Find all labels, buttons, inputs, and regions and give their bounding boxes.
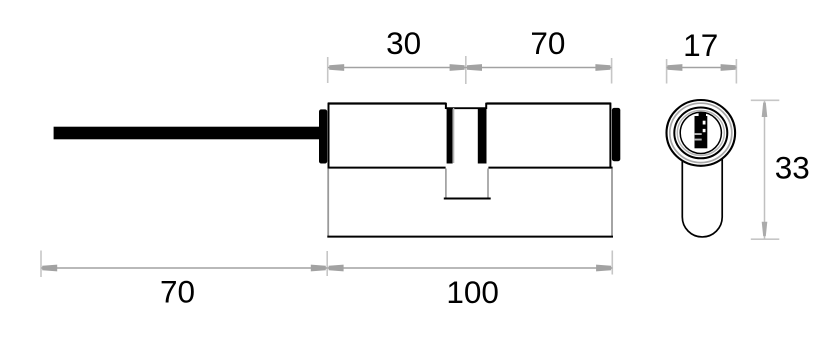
dim tick 17-right xyxy=(735,59,737,84)
dim tick 17-left xyxy=(666,59,668,84)
left end cap xyxy=(319,109,327,163)
svg-text:30: 30 xyxy=(386,25,421,61)
dim tick 100-right xyxy=(611,251,613,275)
cam left bar xyxy=(447,108,453,164)
end-view profile body xyxy=(682,158,722,237)
dim tick 30/70 xyxy=(465,56,467,84)
svg-text:17: 17 xyxy=(683,27,718,63)
dim line 33 xyxy=(762,101,768,240)
dim tick 33-bottom xyxy=(751,238,780,240)
cam notch xyxy=(444,169,491,199)
dim tick 70-right xyxy=(611,58,613,84)
end-view plug ring xyxy=(680,112,721,153)
cam right bar xyxy=(478,108,487,164)
dim tick 70b-left xyxy=(40,251,42,278)
svg-text:33: 33 xyxy=(775,150,810,186)
end-view gray ring 3 xyxy=(677,110,724,155)
lower profile body xyxy=(327,169,613,237)
dim tick 70b/100 xyxy=(326,251,328,276)
svg-text:100: 100 xyxy=(446,274,499,310)
svg-text:70: 70 xyxy=(160,274,195,310)
end-view ring 2 xyxy=(674,107,727,158)
dim tick 33-top xyxy=(751,99,780,101)
end-view outer circle xyxy=(667,100,736,166)
keyway xyxy=(694,112,707,148)
dim line 70 (bottom) xyxy=(41,265,327,272)
dim tick 30-left xyxy=(327,57,329,83)
end-view gray ring 1 xyxy=(670,103,732,162)
right end cap xyxy=(612,108,620,161)
dim line 30 xyxy=(328,64,466,71)
cam shadow line xyxy=(453,108,455,163)
dim line 17 xyxy=(667,64,737,71)
cylinder barrel outline xyxy=(328,103,613,168)
dim line 70 (top) xyxy=(466,64,612,71)
svg-text:70: 70 xyxy=(530,25,565,61)
key rod xyxy=(54,127,320,140)
dim line 100 xyxy=(327,265,612,272)
